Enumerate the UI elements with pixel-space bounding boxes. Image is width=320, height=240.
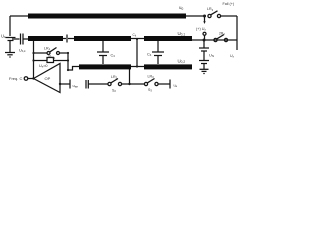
svg-text:U0,2: U0,2 — [178, 59, 186, 65]
svg-text:U0,1: U0,1 — [178, 31, 186, 37]
svg-text:C4: C4 — [147, 53, 152, 58]
svg-text:Fall (+): Fall (+) — [223, 2, 235, 6]
svg-text:S3: S3 — [148, 88, 152, 93]
svg-text:Ue≈0: Ue≈0 — [39, 64, 48, 69]
svg-text:LR3: LR3 — [148, 75, 155, 80]
svg-text:S2: S2 — [112, 89, 116, 94]
svg-text:Ck: Ck — [133, 33, 137, 38]
svg-text:Freq. C: Freq. C — [9, 76, 22, 81]
svg-text:u0: u0 — [179, 5, 183, 11]
svg-text:S1: S1 — [52, 56, 56, 61]
svg-text:Ux: Ux — [230, 54, 235, 59]
svg-text:2R2: 2R2 — [219, 32, 225, 37]
svg-text:Ub,k: Ub,k — [19, 49, 26, 54]
svg-text:UN: UN — [209, 53, 215, 59]
svg-text:C3: C3 — [111, 54, 116, 59]
svg-text:ua: ua — [174, 84, 178, 89]
svg-text:Ub: Ub — [1, 34, 6, 40]
svg-text:OP: OP — [45, 76, 51, 81]
svg-text:uae: uae — [73, 83, 79, 89]
svg-text:(+) Ux: (+) Ux — [196, 27, 207, 32]
svg-text:LR1: LR1 — [44, 47, 51, 52]
svg-text:LR2: LR2 — [111, 75, 118, 80]
svg-text:LR3: LR3 — [207, 7, 214, 12]
